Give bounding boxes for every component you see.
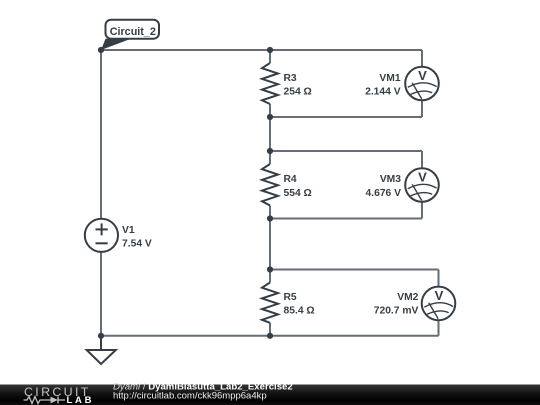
- svg-text:85.4 Ω: 85.4 Ω: [284, 306, 315, 317]
- svg-text:R3: R3: [284, 73, 297, 84]
- svg-text:Circuit_2: Circuit_2: [110, 26, 156, 38]
- svg-text:R4: R4: [284, 174, 297, 185]
- svg-text:VM3: VM3: [380, 174, 401, 185]
- svg-text:V: V: [435, 288, 444, 303]
- svg-text:VM1: VM1: [379, 73, 400, 84]
- svg-text:VM2: VM2: [397, 292, 418, 303]
- svg-text:LAB: LAB: [67, 395, 95, 405]
- svg-text:720.7 mV: 720.7 mV: [374, 306, 419, 317]
- svg-text:4.676 V: 4.676 V: [366, 188, 402, 199]
- svg-text:554 Ω: 554 Ω: [284, 188, 312, 199]
- svg-text:V1: V1: [122, 225, 135, 236]
- svg-text:7.54 V: 7.54 V: [122, 238, 152, 249]
- svg-text:R5: R5: [284, 292, 297, 303]
- svg-text:V: V: [418, 68, 427, 83]
- svg-text:254 Ω: 254 Ω: [284, 87, 312, 98]
- svg-text:V: V: [418, 170, 427, 185]
- svg-text:http://circuitlab.com/ckk96mpp: http://circuitlab.com/ckk96mpp6a4kp: [113, 390, 267, 401]
- svg-text:2.144 V: 2.144 V: [365, 87, 401, 98]
